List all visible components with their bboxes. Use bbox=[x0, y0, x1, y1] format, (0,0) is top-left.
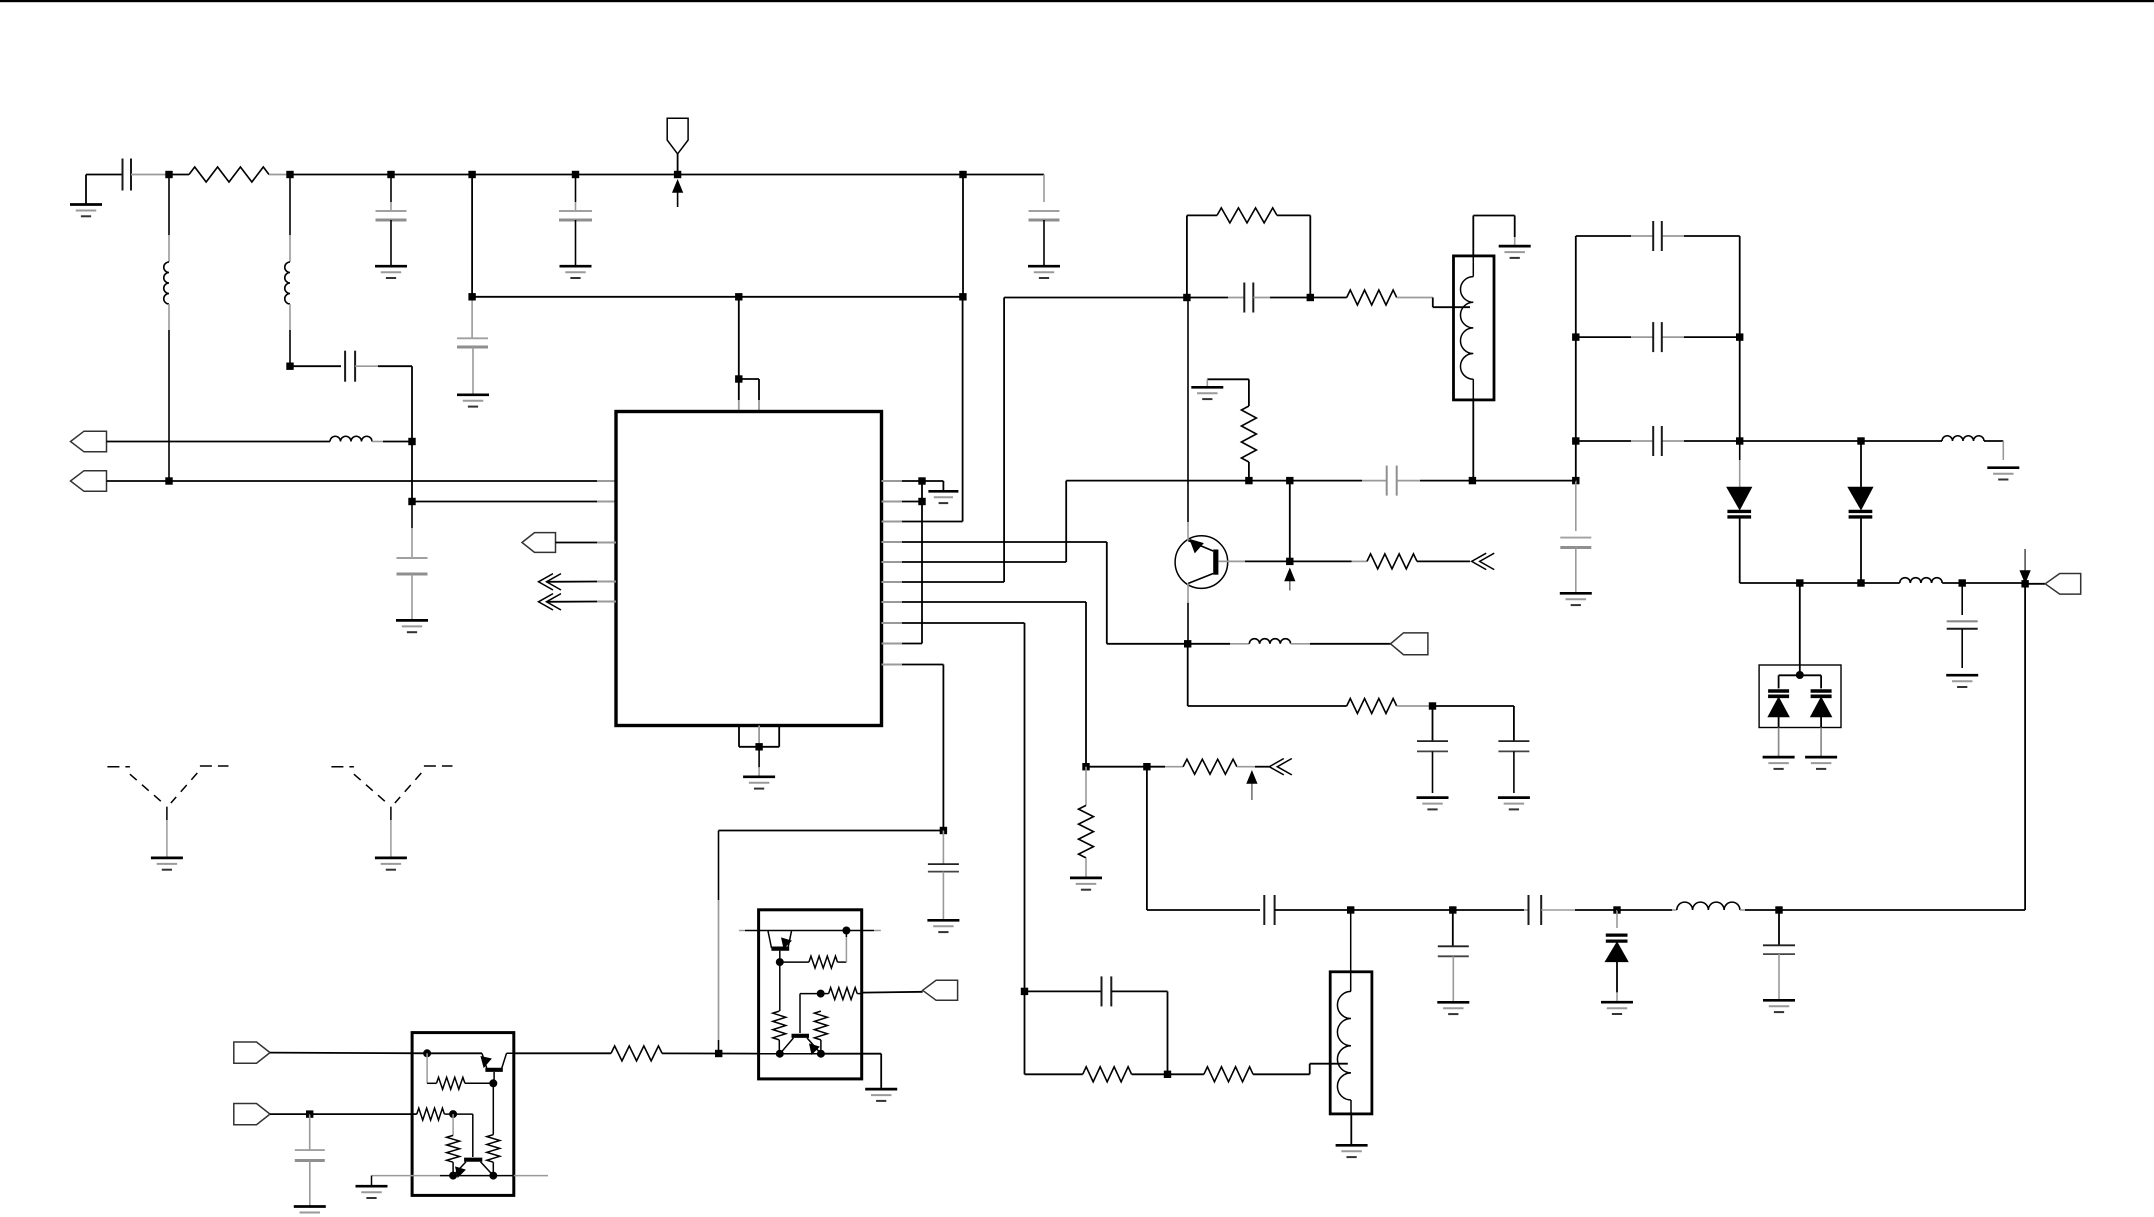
wire T1 bottom bbox=[1472, 400, 1474, 481]
node Q3-B bbox=[489, 1079, 497, 1087]
ground G22 bbox=[1336, 1114, 1368, 1157]
resistor R8 with ground bbox=[1070, 767, 1102, 890]
IC bottom pin bbox=[739, 726, 779, 747]
node J41 bbox=[1286, 558, 1293, 565]
wire J23 left bbox=[719, 830, 944, 832]
node J21 bbox=[1183, 294, 1190, 301]
node J44 bbox=[1021, 988, 1028, 995]
capacitor C1 input bbox=[86, 159, 166, 191]
connector P6 bbox=[234, 1042, 270, 1063]
node J4 bbox=[408, 438, 415, 445]
node J7 bbox=[468, 171, 475, 178]
ground G19 bbox=[1987, 468, 2019, 480]
node J36 bbox=[1449, 906, 1456, 913]
wire IN1 to IC bbox=[547, 581, 617, 583]
wire cap bank left rail bbox=[1575, 236, 1577, 481]
transformer T2 coil bbox=[1337, 991, 1351, 1114]
resistor R1 top bbox=[169, 167, 290, 182]
arrow down OUT bbox=[2021, 549, 2030, 582]
wire row766 bbox=[1086, 766, 1147, 768]
resistor Q3-R4 bbox=[447, 1114, 460, 1176]
node J3 bbox=[286, 363, 293, 370]
resistor Q2-R1 bbox=[780, 931, 847, 969]
node J28 bbox=[1736, 437, 1743, 444]
transistor pack Q2 box bbox=[759, 910, 862, 1079]
node J8 bbox=[468, 293, 475, 300]
node J19 bbox=[1469, 477, 1476, 484]
IC pin4 wire bbox=[882, 542, 1188, 644]
ground G20 bbox=[1763, 757, 1795, 769]
capacitor C19 with ground bbox=[1437, 910, 1469, 1014]
node J9 bbox=[735, 293, 742, 300]
node J18 bbox=[1286, 477, 1293, 484]
resistor Q2-R4 bbox=[814, 1011, 827, 1054]
inductor L7 bbox=[1677, 902, 1779, 910]
IC pin2 stub bbox=[882, 501, 923, 503]
connector P5 bbox=[1391, 633, 1428, 655]
wire J44 down bbox=[1024, 991, 1026, 1074]
wire Q2-D left bbox=[800, 994, 821, 1033]
wire IC top pin bbox=[738, 297, 740, 379]
wire cap bank top bbox=[1576, 235, 1740, 237]
capacitor C9 bbox=[1187, 283, 1310, 313]
node J33 bbox=[2021, 580, 2028, 587]
resistor R4 vert bbox=[1207, 379, 1256, 480]
connector P1 left bbox=[71, 431, 107, 452]
node J45 bbox=[1164, 1071, 1171, 1078]
node Q2-D bbox=[817, 990, 825, 998]
wire Q3a base down bbox=[492, 1072, 495, 1135]
node Q2-E bbox=[776, 1050, 784, 1058]
IC pin5 wire bbox=[882, 481, 1363, 562]
wire IN2 to IC bbox=[547, 601, 617, 603]
inductor L2 vertical bbox=[285, 175, 290, 367]
resistor R6 bbox=[1188, 699, 1433, 714]
node J29 bbox=[1857, 437, 1864, 444]
resistor R5 bbox=[1290, 554, 1470, 569]
connector P8 bbox=[923, 980, 958, 1000]
ground G10 below IC bbox=[743, 747, 775, 789]
transistor Q3b bbox=[453, 1160, 493, 1177]
resistor Q3-R3 bbox=[417, 1108, 453, 1120]
chevron IN1 bbox=[539, 574, 562, 590]
resistor Q3-R2 bbox=[487, 1135, 500, 1176]
resistor R7 bbox=[1147, 759, 1269, 774]
node J30 bbox=[1796, 579, 1803, 586]
node Q3-F bbox=[489, 1172, 497, 1180]
IC pin10 wire bbox=[882, 665, 944, 831]
wire tap T2 bbox=[1310, 1064, 1348, 1075]
node J25 bbox=[1572, 333, 1579, 340]
wire row910a bbox=[1147, 909, 1260, 911]
connector P3 bbox=[522, 533, 556, 553]
capacitor C18 bbox=[1264, 895, 1350, 925]
wire P2 bbox=[107, 480, 170, 482]
connector P7 bbox=[234, 1104, 270, 1125]
diode D3 with ground bbox=[1601, 910, 1633, 1014]
top border bar bbox=[0, 0, 2154, 2]
node J24 bbox=[715, 1050, 722, 1057]
node J26 bbox=[1736, 333, 1743, 340]
capacitor C2 jog bbox=[290, 351, 412, 442]
node J32 bbox=[1959, 579, 1966, 586]
node Q3-D bbox=[449, 1110, 457, 1118]
node J14 bbox=[755, 743, 762, 750]
wire row910c bbox=[1453, 909, 1529, 911]
wire P3 to IC bbox=[556, 542, 617, 544]
node J43 bbox=[1429, 702, 1436, 709]
wire Q2 bottom2 bbox=[780, 1053, 821, 1055]
node J17 bbox=[1245, 477, 1252, 484]
transistor pack Q3 box bbox=[412, 1033, 514, 1196]
resistor R2 loop bbox=[1187, 208, 1310, 298]
transistor Q2a bbox=[768, 931, 792, 949]
wire row910e bbox=[1779, 909, 2025, 911]
resistor Q2-R2 bbox=[773, 1011, 786, 1054]
wire row583b bbox=[1962, 582, 2025, 584]
node J39 bbox=[1082, 763, 1089, 770]
varactor D4 bbox=[1768, 675, 1821, 757]
IC U1 bbox=[616, 412, 882, 726]
power flag VCC bbox=[667, 118, 688, 174]
wire row910d bbox=[1617, 909, 1677, 911]
inductor L4 bbox=[1861, 436, 2003, 460]
capacitor C7 bypass bbox=[1028, 175, 1060, 279]
antenna ANT1 bbox=[107, 766, 228, 870]
transformer T2 box bbox=[1330, 972, 1372, 1114]
diode D2 bbox=[1849, 441, 1873, 583]
wire J43 right bbox=[1433, 705, 1514, 707]
wire x1147 down bbox=[1146, 767, 1148, 910]
node J10 bbox=[959, 293, 966, 300]
IC pin1 stub bbox=[882, 480, 923, 482]
capacitor C10 bbox=[1653, 221, 1662, 251]
node J5 bbox=[408, 498, 415, 505]
inductor L6 bbox=[1188, 639, 1391, 644]
wire J5 to IC bbox=[412, 501, 616, 503]
wire J24 to Q2 bbox=[719, 1053, 759, 1055]
diode D1 bbox=[1727, 441, 1751, 583]
resistor R10 bbox=[1168, 1067, 1310, 1082]
inductor L3 bbox=[330, 436, 383, 441]
node J27 bbox=[1572, 437, 1579, 444]
wire row910b bbox=[1351, 909, 1453, 911]
transformer T1 box bbox=[1454, 256, 1495, 400]
node J42 bbox=[1184, 640, 1191, 647]
wire L3 to J4 bbox=[383, 441, 412, 443]
wire bank to L4 bbox=[1740, 440, 1861, 442]
wire cap bank bot bbox=[1576, 440, 1740, 442]
node J23 bbox=[940, 827, 947, 834]
capacitor C8 with ground bbox=[927, 831, 959, 933]
IC pin3 wire bbox=[882, 297, 963, 522]
ground G1 top-left bbox=[70, 175, 102, 217]
wire Q2a base down bbox=[779, 951, 781, 962]
transformer T1 coil bbox=[1460, 256, 1473, 400]
capacitor C3 with ground bbox=[396, 502, 428, 633]
wire T1 top to ground bbox=[1473, 216, 1514, 256]
wire Q1 emitter row bbox=[1187, 644, 1189, 706]
capacitor C15 bbox=[1362, 466, 1576, 496]
node Q2-F bbox=[817, 1050, 825, 1058]
wire x472 down bbox=[471, 175, 473, 297]
node J6 bbox=[165, 477, 172, 484]
transistor Q1 bbox=[1175, 298, 1228, 644]
resistor Q2-R3 bbox=[821, 988, 862, 1000]
wire J30 down bbox=[1799, 583, 1801, 675]
IC pin6 wire bbox=[882, 298, 1187, 583]
node J40 bbox=[1143, 763, 1150, 770]
wire cap bank right rail bbox=[1739, 236, 1741, 441]
wire Q2-B down bbox=[779, 962, 781, 1011]
arrow up row766 bbox=[1247, 772, 1256, 800]
wire rail2 bbox=[472, 296, 963, 298]
node J46 bbox=[306, 1110, 313, 1117]
node J31 bbox=[1857, 579, 1864, 586]
capacitor C16 with ground bbox=[1417, 706, 1449, 809]
IC pin9 wire bbox=[882, 643, 923, 645]
ground G9 bbox=[922, 481, 958, 503]
chevron IN2 bbox=[539, 594, 562, 610]
wire Q2 to P8 bbox=[862, 991, 923, 994]
wire x2025 down bbox=[2024, 584, 2026, 910]
wire P1 bbox=[107, 441, 331, 443]
chevron OUT2 bbox=[1269, 759, 1292, 775]
node J2 bbox=[286, 171, 293, 178]
transistor Q3a bbox=[482, 1053, 561, 1070]
wire row583 bbox=[1740, 582, 1900, 584]
node J35 bbox=[1347, 906, 1354, 913]
node Q2-C bbox=[842, 927, 850, 935]
capacitor C20 bbox=[1529, 895, 1618, 925]
ground G21 bbox=[1805, 757, 1837, 769]
node Q3-A bbox=[423, 1049, 431, 1057]
connector P2 left bbox=[71, 471, 107, 492]
node J13 bbox=[735, 375, 759, 411]
node J15 bbox=[918, 477, 925, 484]
node J37 bbox=[1613, 906, 1620, 913]
node J1 bbox=[165, 171, 172, 178]
arrow up J41 bbox=[1285, 570, 1294, 591]
wire P6 to Q3 bbox=[270, 1052, 427, 1055]
inductor L1 vertical bbox=[164, 175, 169, 482]
node J22 bbox=[1307, 294, 1314, 301]
node J16 bbox=[918, 498, 925, 505]
wire top rail bbox=[290, 174, 1044, 176]
resistor R9 bbox=[1025, 1067, 1168, 1082]
wire x412 down bbox=[411, 442, 413, 502]
resistor R11 bbox=[514, 1046, 719, 1061]
wire Q3 rail bbox=[372, 1175, 549, 1177]
inductor L5 bbox=[1900, 578, 1963, 583]
chevron OUT1 bbox=[1472, 553, 1495, 569]
IC pin7 wire bbox=[882, 602, 1087, 767]
wire P2 to IC bbox=[169, 480, 616, 482]
node Q3-E bbox=[449, 1172, 457, 1180]
ground G7 bbox=[1191, 387, 1223, 399]
wire Q2 exit bbox=[821, 1053, 881, 1055]
wire Q2a collector bbox=[739, 930, 881, 932]
node J38 bbox=[1775, 906, 1782, 913]
wire x718 down bbox=[718, 831, 720, 1054]
wire Q3 top bbox=[427, 1052, 482, 1054]
capacitor C23 with ground bbox=[294, 1114, 326, 1217]
wire Q3-D right bbox=[453, 1114, 473, 1157]
capacitor C21 with ground bbox=[1763, 910, 1795, 1012]
wire P7 to Q3 bbox=[310, 1113, 417, 1115]
capacitor C13 with ground bbox=[1560, 481, 1592, 605]
IC pin8 wire bbox=[882, 623, 1025, 991]
transistor Q2b bbox=[780, 1036, 821, 1054]
wire R3 to T1 tap bbox=[1433, 298, 1470, 308]
resistor Q3-R1 bbox=[427, 1053, 493, 1089]
wire J18 down bbox=[1289, 481, 1291, 562]
capacitor C5 with ground bbox=[457, 297, 489, 407]
wire cap bank mid bbox=[1576, 336, 1740, 338]
capacitor C17 with ground bbox=[1498, 706, 1530, 809]
wire x922 bbox=[921, 481, 923, 644]
node Q2-B bbox=[776, 958, 784, 966]
node J20 bbox=[1572, 477, 1579, 484]
resistor R3 bbox=[1310, 290, 1433, 305]
capacitor C12 bbox=[1653, 426, 1662, 456]
node J11 bbox=[674, 171, 681, 178]
ground G24 bbox=[865, 1054, 897, 1101]
node J12 bbox=[959, 171, 966, 178]
capacitor C22 bbox=[1025, 976, 1168, 1074]
wire J35 down bbox=[1350, 910, 1352, 991]
wire x963 down bbox=[962, 175, 964, 297]
capacitor C4 bypass bbox=[375, 171, 407, 278]
connector P4 out bbox=[2025, 574, 2081, 595]
wire Q1 base bbox=[1218, 560, 1289, 562]
varactor D5 bbox=[1811, 675, 1832, 757]
ground G6 bbox=[1499, 246, 1531, 258]
varactor box bbox=[1759, 665, 1841, 728]
antenna ANT2 bbox=[331, 766, 452, 870]
arrow up at VCC bbox=[673, 181, 682, 207]
capacitor C11 bbox=[1653, 322, 1662, 352]
node J34 bbox=[1796, 671, 1804, 679]
wire Q2 bottom bbox=[759, 1053, 780, 1055]
ground G23 bbox=[356, 1176, 388, 1198]
capacitor C6 bypass bbox=[559, 171, 592, 278]
capacitor C14 with ground bbox=[1946, 583, 1978, 687]
wire P7 bbox=[270, 1113, 310, 1115]
